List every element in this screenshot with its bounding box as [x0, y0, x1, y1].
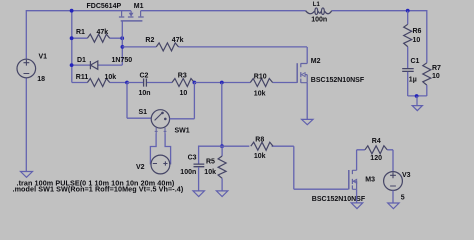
wire V1 bottom lead	[25, 78, 27, 172]
voltage source V1	[17, 54, 47, 84]
svg-text:1µ: 1µ	[409, 77, 417, 84]
node ground junction right	[415, 94, 419, 98]
node R6 top junction	[406, 9, 410, 13]
wire R2 to M2 drain corner	[306, 47, 308, 64]
svg-text:R3: R3	[178, 73, 187, 80]
resistor R3	[172, 73, 194, 97]
svg-text:10k: 10k	[105, 74, 117, 81]
wire R10 junction down to C3/R5/R8 node	[221, 83, 223, 147]
svg-text:5: 5	[401, 194, 405, 201]
svg-text:C1: C1	[411, 58, 420, 65]
resistor R6	[404, 11, 422, 68]
ground below M3	[351, 203, 363, 209]
ground below C1/R7 rail	[412, 96, 422, 111]
svg-text:R10: R10	[254, 74, 267, 81]
wire bottom rail C1-R7	[408, 95, 427, 97]
wire S1 right to R3 junction riser	[170, 83, 195, 119]
wire V2 loop right	[165, 134, 171, 165]
svg-text:L1: L1	[313, 2, 321, 8]
node R1 right junction	[120, 36, 124, 40]
ground below V1	[21, 172, 33, 178]
svg-text:FDC5614P: FDC5614P	[87, 3, 122, 10]
node R2 takeoff junction	[121, 45, 125, 49]
svg-text:.model SW1 SW(Ron=1 Roff=10Meg: .model SW1 SW(Ron=1 Roff=10Meg Vt=.5 Vh=…	[13, 185, 184, 194]
resistor R1	[72, 29, 123, 42]
svg-text:V3: V3	[402, 172, 411, 179]
svg-text:C2: C2	[140, 73, 149, 80]
svg-text:BSC152N10NSF: BSC152N10NSF	[311, 77, 365, 84]
wire M1 gate rail x=122	[121, 21, 123, 65]
svg-text:R2: R2	[145, 37, 154, 44]
wire M3 drain up to R4	[356, 150, 358, 171]
wire top rail left: V1 to M1 source	[26, 10, 131, 12]
resistor R7	[423, 63, 441, 96]
voltage source V3	[384, 172, 411, 202]
wire V3 bottom lead	[392, 190, 394, 203]
wire M2 source to ground	[306, 83, 308, 120]
svg-text:10n: 10n	[139, 90, 151, 97]
node C3/R5/R8 junction	[220, 144, 224, 148]
resistor R10	[250, 74, 297, 98]
svg-text:100n: 100n	[180, 169, 196, 176]
svg-text:47k: 47k	[97, 29, 109, 36]
svg-text:V2: V2	[136, 164, 145, 171]
resistor R4	[357, 138, 393, 162]
wire S1 drop from C2 junction	[127, 83, 151, 119]
svg-text:18: 18	[37, 76, 45, 83]
wire junction to C3	[199, 146, 222, 164]
svg-text:R6: R6	[413, 28, 422, 35]
wire V3 top lead	[392, 150, 394, 172]
ground below R5	[216, 191, 227, 197]
wire R3 to R10	[194, 82, 250, 84]
transistor M1 FDC5614P (PMOS, horizontal)	[87, 3, 144, 21]
svg-text:M1: M1	[134, 3, 144, 10]
resistor R11	[72, 74, 127, 87]
transistor M3 BSC152N10NSF (NMOS, vertical)	[312, 170, 375, 203]
capacitor C2	[127, 73, 172, 97]
node R10 left junction	[220, 81, 224, 85]
svg-text:10k: 10k	[254, 153, 266, 160]
svg-text:R5: R5	[206, 159, 215, 166]
transistor M2 BSC152N10NSF (NMOS, vertical)	[297, 58, 365, 84]
svg-text:V1: V1	[39, 54, 48, 61]
node R1 left junction	[70, 36, 74, 40]
ground below M2	[302, 119, 313, 124]
wire left rail x=72	[71, 11, 73, 83]
wire R8 corner down to M3 gate	[294, 146, 349, 189]
node junction top-left	[70, 9, 74, 13]
node R3 right junction	[193, 81, 197, 85]
svg-text:R7: R7	[432, 65, 441, 72]
wire V2 loop left	[150, 134, 156, 165]
svg-text:S1: S1	[139, 109, 148, 116]
svg-text:47k: 47k	[172, 37, 184, 44]
resistor R2	[122, 37, 307, 51]
capacitor C1	[402, 58, 419, 96]
wire R7 top lead	[426, 10, 428, 63]
svg-text:10: 10	[432, 73, 440, 80]
svg-text:SW1: SW1	[175, 128, 190, 135]
resistor R5	[204, 146, 226, 191]
voltage source V2	[136, 155, 170, 174]
svg-text:120: 120	[370, 155, 382, 162]
svg-text:10: 10	[180, 90, 188, 97]
wire top rail M1 drain to L1	[141, 10, 306, 12]
svg-text:R11: R11	[76, 74, 89, 81]
svg-text:10k: 10k	[204, 169, 216, 176]
node D1 left junction	[70, 63, 74, 67]
svg-text:C3: C3	[188, 154, 197, 161]
node C2/S1 junction	[125, 81, 129, 85]
wire V1 top lead	[25, 10, 27, 59]
svg-text:10: 10	[413, 37, 421, 44]
svg-text:M2: M2	[311, 58, 321, 65]
svg-text:BSC152N10NSF: BSC152N10NSF	[312, 196, 366, 203]
svg-text:10k: 10k	[254, 90, 266, 97]
svg-text:1N750: 1N750	[112, 57, 133, 64]
inductor L1	[306, 2, 332, 23]
svg-text:100n: 100n	[311, 16, 327, 23]
switch S1 SW1	[139, 109, 190, 135]
svg-text:D1: D1	[77, 57, 86, 64]
svg-text:M3: M3	[365, 177, 375, 184]
wire top rail L1 to R7 corner	[332, 10, 427, 12]
svg-text:R1: R1	[76, 29, 85, 36]
ground below V3	[388, 203, 399, 209]
resistor R8	[222, 136, 294, 160]
svg-text:R8: R8	[255, 136, 264, 143]
ground below C3	[193, 191, 204, 197]
wire M3 source to ground	[356, 189, 358, 203]
svg-text:R4: R4	[372, 138, 381, 145]
diode D1 1N750	[72, 57, 132, 69]
capacitor C3	[180, 154, 204, 191]
